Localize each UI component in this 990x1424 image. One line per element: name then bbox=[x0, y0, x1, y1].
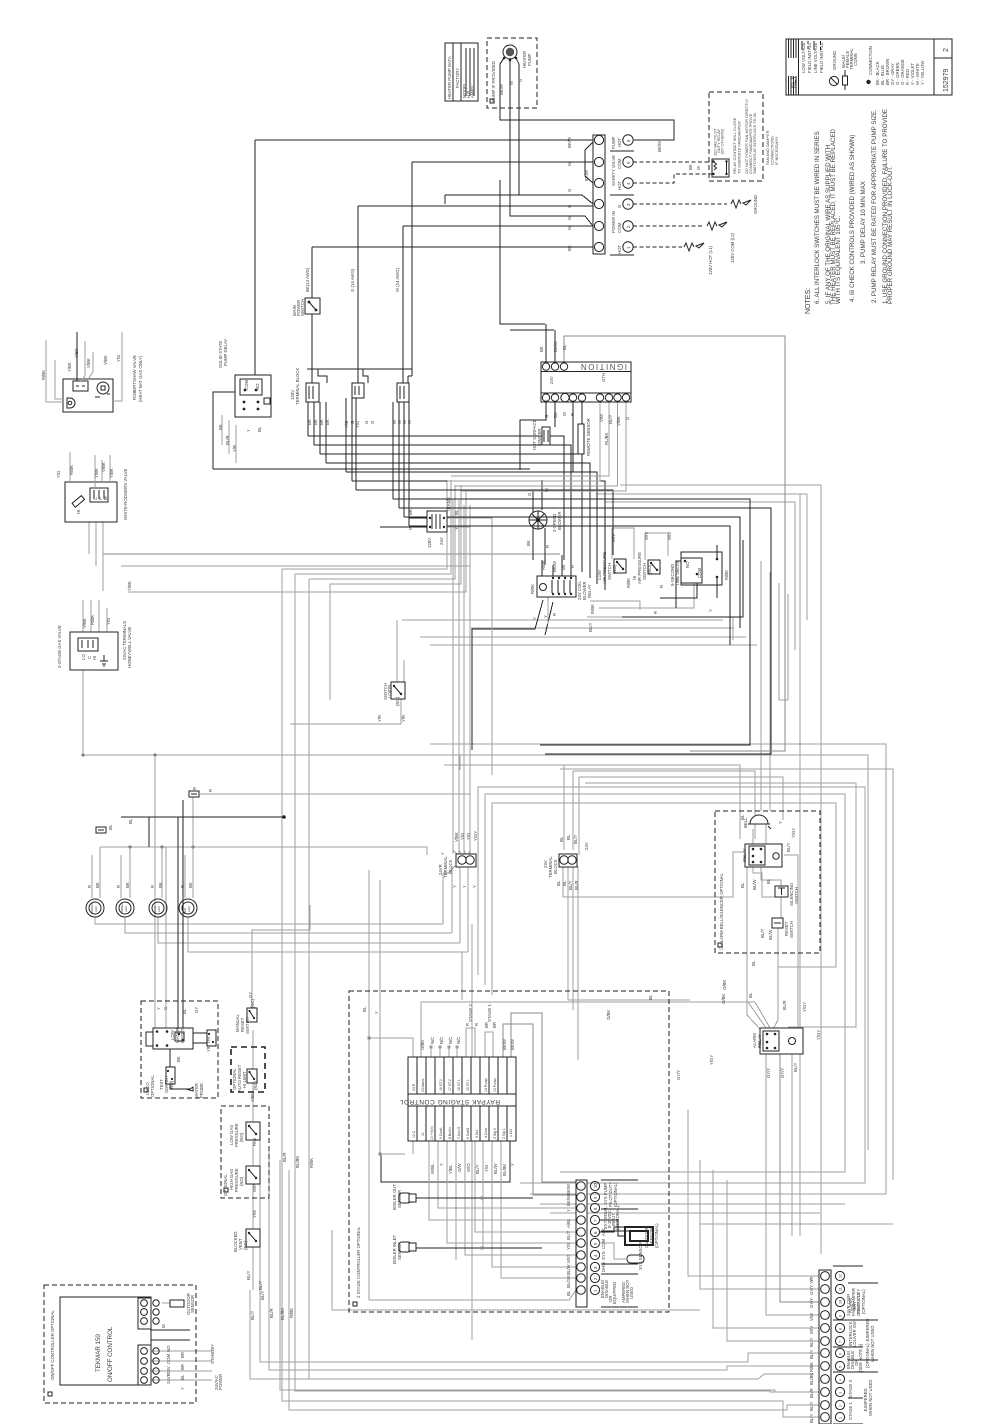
svg-text:SWITCH: SWITCH bbox=[789, 921, 794, 938]
svg-text:BK: BK bbox=[526, 540, 531, 546]
svg-text:Y: Y bbox=[452, 885, 457, 888]
svg-text:COM: COM bbox=[617, 159, 622, 169]
wire big loop 1 bbox=[393, 499, 750, 745]
svg-text:BK: BK bbox=[158, 882, 163, 888]
wire bottom left riser x280 bbox=[280, 1160, 819, 1392]
svg-text:R: R bbox=[192, 787, 197, 790]
svg-text:M: M bbox=[103, 496, 108, 500]
bottom right terminal strip 1-12 bbox=[819, 1266, 878, 1424]
wire big loop 3 bbox=[404, 517, 740, 628]
svg-text:W/O: W/O bbox=[566, 1254, 571, 1263]
wire gray y637 run bbox=[420, 636, 746, 638]
svg-text:STAGE 1: STAGE 1 bbox=[848, 1402, 853, 1420]
svg-text:BK: BK bbox=[188, 882, 193, 888]
svg-text:GY/Y: GY/Y bbox=[676, 1070, 681, 1080]
svg-text:BK/W: BK/W bbox=[566, 1183, 571, 1195]
svg-text:BL: BL bbox=[180, 1374, 185, 1380]
svg-text:O/BK: O/BK bbox=[722, 980, 727, 990]
svg-text:BL: BL bbox=[257, 426, 262, 432]
svg-text:COM: COM bbox=[617, 223, 622, 233]
2-stage gas valve bbox=[70, 632, 118, 670]
wire W/V to low air pressure switch bbox=[612, 528, 634, 559]
svg-text:BK: BK bbox=[539, 346, 544, 352]
svg-text:LED: LED bbox=[94, 905, 98, 912]
wire valve risers bbox=[89, 500, 103, 591]
wire ring 6 bbox=[492, 803, 836, 1031]
svg-text:R/BK: R/BK bbox=[309, 1158, 314, 1168]
svg-text:TO ENERGIZE FAN/DAMPER: TO ENERGIZE FAN/DAMPER bbox=[737, 121, 742, 174]
svg-text:10: 10 bbox=[593, 1183, 598, 1188]
svg-text:IGNITER: IGNITER bbox=[537, 429, 542, 446]
wire blower relay Y drop bbox=[472, 600, 553, 750]
svg-text:BLOWER: BLOWER bbox=[557, 511, 562, 530]
boiler inlet sensor bbox=[399, 1242, 416, 1252]
svg-text:Y/G: Y/G bbox=[466, 832, 471, 840]
wire LED2 leads bbox=[121, 847, 452, 933]
heater pump data table bbox=[445, 43, 478, 101]
svg-text:BL/Y: BL/Y bbox=[786, 843, 791, 852]
wire ignition bottom BK bbox=[554, 401, 556, 427]
wire R run y598 bbox=[622, 540, 743, 617]
wire y847 bus bbox=[100, 847, 427, 855]
wire pump G bbox=[516, 58, 519, 195]
svg-text:ON/OFF CONTROLLER OPTIONAL: ON/OFF CONTROLLER OPTIONAL bbox=[50, 1310, 55, 1380]
svg-text:R/BK: R/BK bbox=[809, 1362, 814, 1372]
wire gray y566 long run bbox=[121, 565, 470, 567]
svg-text:EQUIPPED: EQUIPPED bbox=[612, 1282, 617, 1304]
svg-text:4: 4 bbox=[839, 1379, 843, 1381]
svg-text:COM: COM bbox=[601, 1239, 606, 1249]
svg-text:BL/W: BL/W bbox=[768, 929, 773, 940]
svg-text:11: 11 bbox=[421, 1132, 425, 1136]
svg-text:FIELD INSTALL: FIELD INSTALL bbox=[807, 42, 812, 73]
svg-text:Y: Y bbox=[156, 1007, 161, 1010]
wire blower relay gray bottoms bbox=[548, 596, 733, 640]
svg-text:Y/R: Y/R bbox=[232, 445, 237, 452]
svg-text:RELAY: RELAY bbox=[742, 848, 747, 862]
wire lwco riser b bbox=[165, 847, 167, 1028]
svg-text:2-STAGE GAS VALVE: 2-STAGE GAS VALVE bbox=[57, 625, 62, 668]
white-rodgers valve bbox=[65, 452, 117, 522]
svg-text:V/W: V/W bbox=[809, 1312, 814, 1321]
wire gray y645 run bbox=[430, 644, 757, 646]
wire mid vertical bundle b bbox=[769, 572, 771, 811]
LED green bbox=[86, 899, 104, 917]
svg-text:BL/Y: BL/Y bbox=[608, 415, 613, 424]
svg-text:LO: LO bbox=[81, 654, 86, 660]
svg-text:Y/GY: Y/GY bbox=[473, 831, 478, 841]
svg-text:AIR: AIR bbox=[601, 1229, 606, 1236]
svg-text:BL/Y: BL/Y bbox=[258, 1281, 263, 1290]
svg-text:2. PUMP RELAY MUST BE RATED F: 2. PUMP RELAY MUST BE RATED FOR APPROPRI… bbox=[871, 109, 878, 303]
svg-text:SYS: SYS bbox=[601, 1251, 606, 1260]
solid state pump delay bbox=[235, 375, 271, 417]
svg-text:OPTIONAL: OPTIONAL bbox=[223, 1174, 228, 1196]
svg-text:R: R bbox=[653, 611, 658, 614]
svg-text:8 Bull In: 8 Bull In bbox=[448, 1127, 452, 1139]
wire bottom left riser x250 bbox=[250, 1130, 819, 1379]
svg-text:Y: Y bbox=[543, 615, 548, 618]
svg-text:W (14 AWG): W (14 AWG) bbox=[395, 267, 400, 292]
svg-text:3 Stg 2: 3 Stg 2 bbox=[493, 1128, 497, 1139]
svg-text:TIME DELAY: TIME DELAY bbox=[675, 561, 680, 586]
svg-text:(NO): (NO) bbox=[169, 1080, 174, 1090]
svg-text:STAGE 1: STAGE 1 bbox=[487, 1004, 492, 1022]
svg-text:(NO): (NO) bbox=[612, 564, 617, 574]
svg-text:STAGE 2: STAGE 2 bbox=[468, 1004, 473, 1022]
svg-text:13 Pump: 13 Pump bbox=[493, 1078, 497, 1092]
svg-text:BL: BL bbox=[740, 882, 745, 888]
svg-text:(BY OTHERS): (BY OTHERS) bbox=[720, 128, 725, 154]
svg-text:BL/Y: BL/Y bbox=[760, 929, 765, 938]
svg-text:LINE VOLTAGE: LINE VOLTAGE bbox=[813, 42, 818, 73]
svg-text:Y: Y bbox=[374, 1011, 379, 1014]
svg-text:SWITCHES AT INTERLOCK TE-IN.: SWITCHES AT INTERLOCK TE-IN. bbox=[752, 112, 757, 174]
svg-text:Y: Y bbox=[180, 1387, 185, 1390]
svg-text:W/BL: W/BL bbox=[430, 1163, 435, 1174]
svg-text:BL: BL bbox=[182, 1008, 187, 1014]
wire mid vertical bundle c bbox=[778, 583, 780, 700]
field wiring dashed runs bbox=[633, 162, 751, 251]
svg-text:BL: BL bbox=[748, 992, 753, 998]
svg-text:O/BK: O/BK bbox=[420, 1040, 425, 1050]
svg-text:HI: HI bbox=[92, 656, 97, 660]
svg-text:24V: 24V bbox=[166, 1366, 171, 1374]
wire jog terminal 6 to 4 bbox=[585, 142, 593, 183]
svg-text:PUMP DELAY: PUMP DELAY bbox=[223, 339, 228, 366]
svg-text:BL/W: BL/W bbox=[493, 1163, 498, 1174]
KEY legend table bbox=[786, 39, 934, 95]
wire staging O/BK to alarm relay bbox=[421, 1002, 755, 1057]
svg-text:R: R bbox=[116, 885, 121, 888]
svg-text:(NC): (NC) bbox=[250, 998, 255, 1008]
svg-text:COM: COM bbox=[244, 380, 249, 390]
wire staging bottom fan to strip bbox=[429, 1141, 576, 1278]
svg-text:BK: BK bbox=[313, 419, 318, 425]
svg-text:24V: 24V bbox=[439, 537, 444, 545]
svg-text:HOT: HOT bbox=[617, 138, 622, 147]
svg-text:14 Pump: 14 Pump bbox=[484, 1078, 488, 1092]
wire staging stage brackets bbox=[466, 1028, 493, 1057]
svg-text:GY: GY bbox=[194, 1007, 199, 1013]
svg-text:BL/Y: BL/Y bbox=[809, 1402, 814, 1411]
silencing switch bbox=[775, 886, 788, 897]
wire big loop 2 bbox=[399, 508, 771, 754]
svg-text:BK: BK bbox=[319, 419, 324, 425]
sys sensor capsule bbox=[599, 1243, 644, 1263]
power-in terminal strip bbox=[593, 135, 605, 254]
svg-text:WHEN NOT USED: WHEN NOT USED bbox=[868, 1380, 873, 1416]
svg-text:1: 1 bbox=[839, 1417, 843, 1419]
wire lwco riser d bbox=[129, 847, 131, 860]
svg-text:LOW VOLTAGE: LOW VOLTAGE bbox=[801, 42, 806, 73]
svg-text:BL/Y: BL/Y bbox=[260, 1291, 265, 1300]
svg-text:RELAY: RELAY bbox=[757, 1034, 762, 1048]
svg-text:Y/G: Y/G bbox=[566, 1242, 571, 1250]
wire Y/GY ring bbox=[585, 783, 856, 1027]
svg-text:BK: BK bbox=[218, 424, 223, 430]
wire low-voltage ring 4 bbox=[478, 787, 865, 1183]
svg-text:AMPS :: AMPS : bbox=[470, 83, 475, 98]
svg-text:4 Com: 4 Com bbox=[484, 1128, 488, 1138]
svg-text:Y/GY: Y/GY bbox=[791, 828, 796, 838]
robertshaw valve bbox=[46, 332, 122, 412]
svg-text:24VR: 24VR bbox=[166, 1373, 171, 1384]
svg-text:R: R bbox=[180, 885, 185, 888]
svg-text:15 ST 1: 15 ST 1 bbox=[466, 1079, 470, 1091]
svg-text:CONTACTS: CONTACTS bbox=[856, 1293, 861, 1316]
wire bus BK y247 bbox=[312, 246, 593, 248]
svg-text:BK: BK bbox=[408, 509, 413, 515]
svg-text:SYS SENSOR: SYS SENSOR bbox=[638, 1242, 643, 1270]
wire 24VR terminal feeders bbox=[453, 500, 470, 854]
wire pump delay gray drops bbox=[222, 415, 236, 463]
wire staircase gray b bbox=[605, 502, 795, 650]
wire bus G y195 bbox=[445, 195, 593, 204]
drawing number box bbox=[934, 39, 952, 95]
svg-text:SENSOR: SENSOR bbox=[397, 1242, 402, 1260]
svg-text:6: 6 bbox=[839, 1353, 843, 1355]
24v coil blower relay bbox=[537, 576, 576, 597]
svg-text:N/C: N/C bbox=[448, 1037, 453, 1044]
wire staircase b3 bbox=[320, 454, 582, 572]
wire 24V terminal outputs bbox=[563, 866, 578, 1060]
svg-text:GROUND: GROUND bbox=[753, 195, 758, 214]
svg-text:R/BK: R/BK bbox=[289, 1308, 294, 1318]
svg-text:BL: BL bbox=[766, 878, 771, 884]
svg-text:PROPER GROUND MAY RESULT IN LO: PROPER GROUND MAY RESULT IN LOCK-OUT. bbox=[887, 166, 894, 304]
svg-text:1 CO: 1 CO bbox=[509, 1129, 513, 1137]
svg-text:Y/BK: Y/BK bbox=[94, 468, 99, 478]
svg-text:TEKMAR 150: TEKMAR 150 bbox=[95, 1334, 102, 1372]
svg-text:Y/BK: Y/BK bbox=[74, 348, 79, 358]
wire staging bottom sensors fan bbox=[456, 1141, 483, 1260]
svg-text:10: 10 bbox=[839, 1300, 843, 1304]
svg-text:POWER IN: POWER IN bbox=[611, 211, 616, 233]
svg-text:R/BK: R/BK bbox=[69, 465, 74, 475]
svg-text:Y/BK: Y/BK bbox=[109, 468, 114, 478]
svg-text:R: R bbox=[659, 585, 664, 588]
water probe arrow bbox=[186, 1087, 193, 1091]
svg-text:PUMP IF PROVIDED: PUMP IF PROVIDED bbox=[491, 61, 496, 102]
alarm reset switch bbox=[772, 918, 783, 928]
svg-text:V/BK: V/BK bbox=[86, 358, 91, 368]
wire pump W bbox=[510, 58, 593, 226]
high gas pressure switch bbox=[246, 1166, 260, 1184]
svg-text:WHEN NOT USED: WHEN NOT USED bbox=[870, 1326, 875, 1362]
wire pump BK/W bbox=[500, 58, 674, 140]
wire gray y628 run bbox=[471, 627, 734, 629]
manual reset switch bbox=[247, 1008, 257, 1022]
svg-text:Y - YELLOW: Y - YELLOW bbox=[920, 60, 925, 85]
svg-text:12 C: 12 C bbox=[412, 1130, 416, 1138]
svg-text:BL: BL bbox=[566, 834, 571, 840]
svg-text:Y/GY: Y/GY bbox=[709, 1055, 714, 1065]
heater pump motor bbox=[503, 45, 518, 61]
svg-text:BL/R: BL/R bbox=[282, 1152, 287, 1162]
svg-text:BL/W: BL/W bbox=[566, 1264, 571, 1275]
svg-text:(NC): (NC) bbox=[243, 1240, 248, 1250]
svg-text:R: R bbox=[87, 885, 92, 888]
wire staircase b1 bbox=[308, 436, 564, 560]
wire alarm relay bottom leads bbox=[780, 1052, 819, 1302]
wire ignition bottom R bbox=[581, 401, 582, 424]
svg-text:R: R bbox=[465, 1023, 470, 1026]
120V terminal block 2 bbox=[352, 383, 364, 398]
svg-text:ON/OFF CONTROL: ON/OFF CONTROL bbox=[107, 1326, 114, 1382]
wire blocked vent chain bbox=[282, 569, 819, 1417]
svg-text:W/V: W/V bbox=[644, 532, 649, 540]
wire block2 drops bbox=[346, 398, 356, 490]
svg-text:GY/Y: GY/Y bbox=[809, 1298, 814, 1308]
svg-text:24VAC TERMINALS: 24VAC TERMINALS bbox=[122, 621, 127, 660]
svg-text:BL: BL bbox=[648, 994, 653, 1000]
wire y756 bus with junctions bbox=[83, 755, 460, 770]
svg-text:9 Com/-: 9 Com/- bbox=[439, 1127, 443, 1139]
wire alarm bell feed BL bbox=[747, 867, 762, 1031]
120V terminal block 3 bbox=[397, 383, 409, 402]
svg-text:Y/R: Y/R bbox=[377, 715, 382, 722]
svg-text:A/BL: A/BL bbox=[566, 1218, 571, 1228]
svg-text:BL/R: BL/R bbox=[809, 1388, 814, 1398]
hi air pressure switch bbox=[648, 560, 660, 574]
svg-text:BL: BL bbox=[454, 509, 459, 515]
transformer bbox=[427, 511, 447, 532]
svg-text:8: 8 bbox=[839, 1328, 843, 1330]
svg-text:(SEE NOTE 5): (SEE NOTE 5) bbox=[858, 1343, 863, 1372]
LED red bbox=[179, 899, 197, 917]
svg-text:(NO): (NO) bbox=[239, 1176, 244, 1186]
svg-text:R/BK: R/BK bbox=[626, 578, 631, 588]
svg-text:R: R bbox=[570, 565, 575, 568]
svg-text:BL/R: BL/R bbox=[574, 880, 579, 890]
svg-text:17 ST 2: 17 ST 2 bbox=[448, 1079, 452, 1091]
svg-text:Y/R Y/R: Y/R Y/R bbox=[206, 1037, 211, 1052]
svg-text:2: 2 bbox=[839, 1405, 843, 1407]
wire ignition top leads bbox=[546, 324, 555, 363]
svg-text:2: 2 bbox=[943, 48, 950, 52]
svg-text:10 +V(in): 10 +V(in) bbox=[430, 1126, 434, 1140]
svg-text:R/BK: R/BK bbox=[530, 584, 535, 594]
svg-text:Y: Y bbox=[440, 852, 445, 855]
wire staging Y left bbox=[380, 880, 413, 1154]
wire low-voltage ring 5 bbox=[485, 794, 845, 1172]
wire lwco riser c bbox=[178, 800, 183, 1028]
svg-text:Y/GY: Y/GY bbox=[816, 1030, 821, 1040]
wire ignition bottom G bbox=[520, 401, 546, 470]
blocked vent switch bbox=[246, 1229, 260, 1247]
svg-text:BK/W: BK/W bbox=[553, 340, 558, 352]
svg-text:FIELD INSTALL: FIELD INSTALL bbox=[819, 42, 824, 73]
svg-text:BK/W: BK/W bbox=[657, 140, 662, 152]
main power switch bbox=[305, 298, 320, 314]
wire staircase b2 bbox=[314, 445, 571, 566]
svg-text:LED: LED bbox=[187, 905, 191, 912]
LWCO optional dashed box bbox=[141, 1001, 218, 1098]
svg-text:BK: BK bbox=[95, 882, 100, 888]
svg-text:V/BK: V/BK bbox=[616, 416, 621, 426]
svg-text:GROUND: GROUND bbox=[832, 51, 837, 70]
wire staging nc stubs bbox=[431, 1048, 457, 1057]
svg-text:BL/BK: BL/BK bbox=[295, 1156, 300, 1168]
svg-text:O/BK: O/BK bbox=[721, 994, 726, 1004]
wire ignition BL loop bbox=[564, 336, 785, 751]
svg-text:R/W: R/W bbox=[252, 1137, 257, 1146]
svg-text:R: R bbox=[545, 545, 550, 548]
field terminal circles column bbox=[610, 135, 634, 255]
svg-text:HOT: HOT bbox=[617, 245, 622, 254]
wire gray trunk y730 bbox=[560, 769, 893, 1180]
wire Y/BK y591 run bbox=[128, 490, 466, 592]
svg-text:R/BK: R/BK bbox=[90, 615, 95, 625]
svg-text:BK: BK bbox=[688, 164, 693, 170]
svg-text:SENSOR: SENSOR bbox=[190, 1295, 195, 1313]
svg-text:SWITCH: SWITCH bbox=[794, 887, 799, 904]
wire low-voltage ring 2 bbox=[610, 494, 800, 1236]
wire gray y554 long run bbox=[103, 553, 560, 555]
120V terminal block 1 bbox=[306, 383, 319, 402]
svg-text:W/V: W/V bbox=[611, 534, 616, 542]
svg-text:BL: BL bbox=[562, 344, 567, 350]
svg-text:G (14 AWG): G (14 AWG) bbox=[350, 268, 355, 292]
svg-text:CONN: CONN bbox=[853, 53, 858, 66]
svg-text:BL/Y: BL/Y bbox=[566, 1231, 571, 1240]
svg-text:COM: COM bbox=[697, 568, 702, 578]
svg-text:6 Sw/O: 6 Sw/O bbox=[466, 1128, 470, 1139]
svg-text:BK: BK bbox=[125, 882, 130, 888]
wire lwco riser a bbox=[154, 755, 156, 1028]
wire vertical x255 bbox=[254, 140, 256, 386]
svg-text:W/V: W/V bbox=[667, 532, 672, 540]
svg-text:LO/OR: LO/OR bbox=[387, 685, 392, 698]
svg-text:7 Aux O: 7 Aux O bbox=[457, 1127, 461, 1139]
wire staging BK/W pair to strip bbox=[503, 1013, 576, 1195]
svg-text:BL: BL bbox=[562, 880, 567, 886]
svg-text:Y/G: Y/G bbox=[460, 832, 465, 840]
svg-text:BL/Y: BL/Y bbox=[809, 1414, 814, 1423]
wire low-voltage ring 3 bbox=[430, 744, 886, 1194]
svg-text:NO: NO bbox=[255, 383, 260, 390]
2-speed blower bbox=[529, 511, 547, 529]
svg-text:BL/BK: BL/BK bbox=[280, 1308, 285, 1320]
svg-text:BL/Y: BL/Y bbox=[588, 623, 593, 632]
5-second time delay bbox=[681, 552, 722, 585]
svg-text:6. ALL INTERLOCK SWITCHES MUS: 6. ALL INTERLOCK SWITCHES MUST BE WIRED … bbox=[814, 131, 821, 304]
wire W/V to hi air pressure switch bbox=[645, 533, 668, 560]
svg-text:23 Alarm: 23 Alarm bbox=[421, 1078, 425, 1092]
svg-text:TERMINAL BLOCK: TERMINAL BLOCK bbox=[295, 368, 300, 405]
wire LED3 leads bbox=[155, 847, 460, 943]
wire bus drop left set bbox=[282, 480, 461, 700]
svg-text:(HEAT NAT GAS ONLY): (HEAT NAT GAS ONLY) bbox=[138, 355, 143, 402]
svg-text:R/BK: R/BK bbox=[541, 560, 546, 570]
wire ignition low v leads bbox=[447, 401, 626, 491]
svg-text:16 ST 2: 16 ST 2 bbox=[439, 1079, 443, 1091]
svg-text:BL: BL bbox=[128, 818, 133, 824]
wire right bottom strip feeders bbox=[713, 1170, 819, 1341]
switch no mid bbox=[391, 682, 405, 699]
svg-text:Y: Y bbox=[439, 1163, 444, 1166]
svg-text:9: 9 bbox=[839, 1315, 843, 1317]
raypak staging control bbox=[408, 1057, 516, 1141]
wire block3 drops bbox=[393, 402, 409, 526]
svg-text:Y/W: Y/W bbox=[252, 1209, 257, 1218]
svg-text:COM: COM bbox=[166, 1354, 171, 1364]
wire 24V terminal feeders bbox=[564, 765, 579, 855]
wire staircase gray a bbox=[597, 494, 807, 620]
svg-text:LED: LED bbox=[124, 905, 128, 912]
svg-text:BK: BK bbox=[561, 564, 566, 570]
